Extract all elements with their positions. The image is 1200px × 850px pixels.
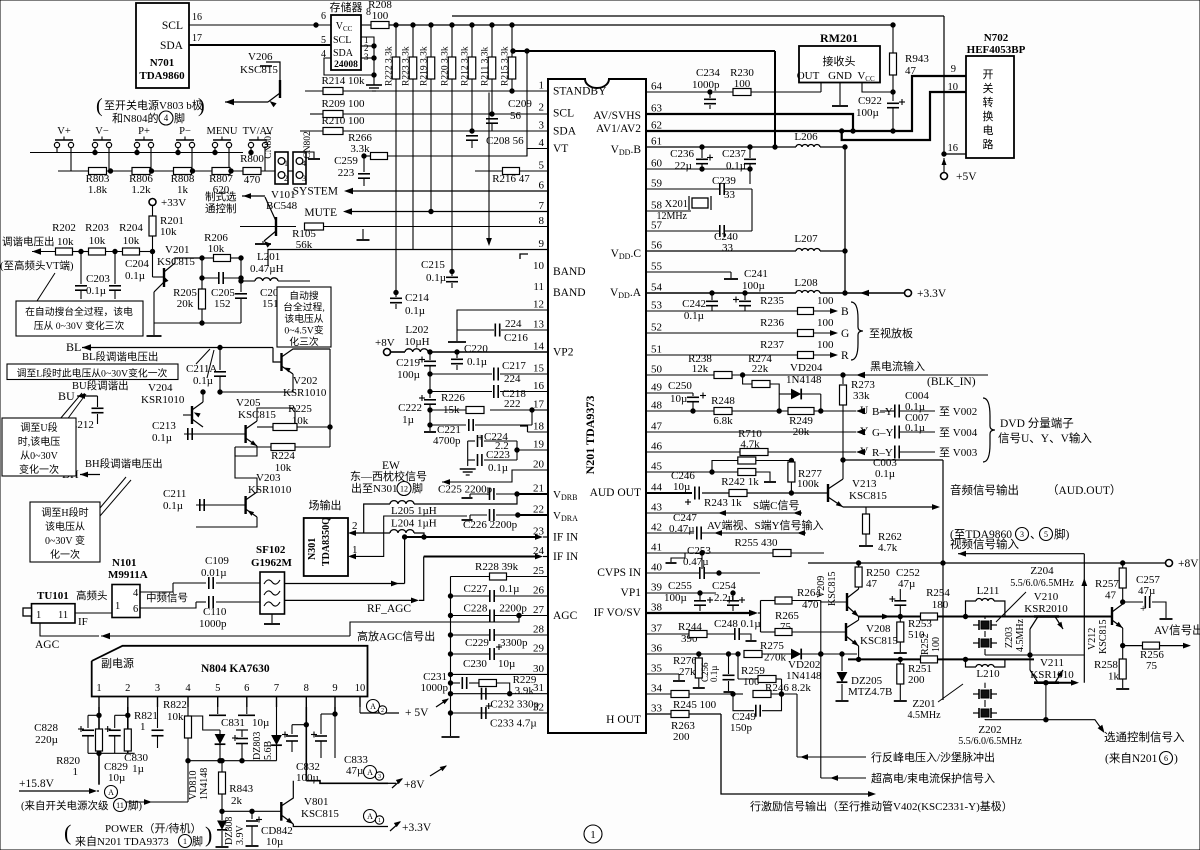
svg-text:AUD OUT: AUD OUT <box>590 487 641 499</box>
svg-text:1µ: 1µ <box>402 414 414 426</box>
svg-text:27k: 27k <box>679 666 696 678</box>
svg-text:V206: V206 <box>248 51 273 63</box>
svg-text:调谐电压出: 调谐电压出 <box>2 235 55 248</box>
svg-text:100: 100 <box>817 317 834 329</box>
svg-text:4700p: 4700p <box>433 435 461 447</box>
svg-text:4: 4 <box>185 683 191 694</box>
diode VD202 line from pin36 <box>646 653 738 655</box>
svg-text:+: + <box>1140 603 1146 615</box>
wire V101 emitter to ground <box>264 231 276 241</box>
svg-text:KSR1010: KSR1010 <box>141 394 185 406</box>
svg-text:CN801: CN801 <box>264 131 274 159</box>
svg-text:2: 2 <box>352 520 358 532</box>
svg-text:1: 1 <box>73 766 79 778</box>
svg-text:接收头: 接收头 <box>823 54 856 68</box>
resonator Z204 upper <box>984 617 986 620</box>
label audio out <box>866 506 937 508</box>
svg-text:5: 5 <box>321 35 326 46</box>
signal line1 SIF <box>859 616 921 618</box>
svg-text:KSR1010: KSR1010 <box>283 387 327 399</box>
pin18 stub bracket <box>528 431 549 433</box>
wire H drive output <box>721 714 873 794</box>
svg-text:24008: 24008 <box>334 60 358 70</box>
svg-text:R822: R822 <box>163 699 187 711</box>
resistor R807 <box>212 168 230 175</box>
wire bottom rail C828 <box>88 752 135 754</box>
svg-text:22k: 22k <box>752 363 769 375</box>
svg-text:P+: P+ <box>138 126 150 137</box>
svg-text:C232 330p: C232 330p <box>490 699 539 711</box>
svg-text:33: 33 <box>722 242 734 254</box>
svg-text:20: 20 <box>533 459 545 471</box>
terminal +8V <box>1166 560 1173 567</box>
svg-text:MENU: MENU <box>207 126 238 137</box>
wire 24008 pin4 loop <box>324 58 374 75</box>
wire 选通控制 from V211 <box>1045 683 1047 720</box>
capacitor C241 cap symbol <box>743 291 747 295</box>
svg-text:C216: C216 <box>504 332 528 344</box>
wire BU arrow <box>77 395 98 397</box>
column rail x450 <box>450 577 452 737</box>
svg-text:AGC: AGC <box>553 610 578 622</box>
svg-text:AGC: AGC <box>35 639 60 651</box>
svg-text:C922: C922 <box>858 95 882 107</box>
svg-text:C259: C259 <box>334 155 358 167</box>
circled A2 <box>367 700 380 713</box>
svg-text:16: 16 <box>192 12 202 23</box>
brace to video board <box>851 302 863 360</box>
svg-text:和N804的: 和N804的 <box>112 111 158 125</box>
svg-text:Z204: Z204 <box>1030 565 1054 577</box>
wire pin60 <box>646 168 750 170</box>
svg-text:Y: Y <box>860 426 869 438</box>
wire pin4 column R822 <box>187 707 189 716</box>
svg-text:KSC815: KSC815 <box>240 64 278 76</box>
svg-text:40: 40 <box>651 562 663 574</box>
svg-text:换: 换 <box>983 109 994 123</box>
svg-text:0.1µ: 0.1µ <box>193 375 213 387</box>
V213 collector rail to +8V vertical <box>843 459 943 461</box>
svg-text:该电压从: 该电压从 <box>284 312 323 325</box>
capacitor C209 56 <box>490 112 494 116</box>
rail B under N804 <box>188 760 277 762</box>
wire R264 to V209 base <box>821 601 847 603</box>
wire pin30 <box>451 673 549 675</box>
svg-text:V203: V203 <box>256 472 281 484</box>
svg-text:58: 58 <box>651 200 663 212</box>
svg-text:47: 47 <box>651 421 663 433</box>
svg-text:BU: BU <box>58 389 75 403</box>
svg-text:R248: R248 <box>711 395 735 407</box>
wire RM201 Vcc to R943/C922 node <box>862 83 893 93</box>
wire pin23 IF IN <box>405 536 540 538</box>
svg-text:2200p: 2200p <box>499 603 527 615</box>
svg-text:15: 15 <box>533 363 545 375</box>
svg-text:150p: 150p <box>730 722 753 734</box>
svg-text:3300p: 3300p <box>500 637 528 649</box>
svg-text:R800: R800 <box>240 153 264 165</box>
svg-text:脚): 脚) <box>128 799 142 812</box>
svg-text:1: 1 <box>183 837 187 846</box>
svg-text:2k: 2k <box>231 795 243 807</box>
svg-text:东—西枕校信号: 东—西枕校信号 <box>350 469 427 483</box>
svg-text:C229: C229 <box>465 637 489 649</box>
connector CN802 <box>293 152 306 184</box>
svg-text:62: 62 <box>651 120 662 132</box>
svg-text:S端C信号: S端C信号 <box>753 499 799 512</box>
wire V206 collector to bracket <box>266 62 280 82</box>
svg-text:38: 38 <box>651 602 663 614</box>
svg-text:37: 37 <box>651 623 663 635</box>
ground stub near CN802 <box>306 152 314 158</box>
column ground <box>442 736 460 738</box>
svg-text:R: R <box>841 350 849 362</box>
resistor R203 <box>89 248 106 255</box>
svg-text:3.9k: 3.9k <box>515 685 535 697</box>
callout box 调至L段 <box>7 364 178 380</box>
svg-text:P−: P− <box>179 126 191 137</box>
svg-text:V211: V211 <box>1040 657 1064 669</box>
svg-text:+8V: +8V <box>404 779 425 791</box>
svg-text:通控制: 通控制 <box>205 202 237 215</box>
resistor R202 <box>56 248 73 255</box>
beam current protection vertical <box>820 601 822 779</box>
svg-text:54: 54 <box>651 282 663 294</box>
svg-text:U: U <box>860 405 869 417</box>
svg-text:压从 0~30V 变化三次: 压从 0~30V 变化三次 <box>34 319 125 332</box>
svg-text:R237: R237 <box>760 339 784 351</box>
wire top rail into N702 pin16 <box>944 16 966 154</box>
svg-text:R202: R202 <box>52 222 76 234</box>
resonator Z202 lower <box>984 700 986 707</box>
svg-text:4.7k: 4.7k <box>878 542 898 554</box>
svg-text:7: 7 <box>539 200 545 212</box>
circled A3 <box>364 766 377 779</box>
svg-text:IF IN: IF IN <box>553 532 579 544</box>
svg-text:R212 3.3k: R212 3.3k <box>461 46 471 86</box>
svg-text:3: 3 <box>378 774 381 780</box>
wire BH arrow <box>80 474 100 476</box>
SF102 ground <box>271 614 273 623</box>
resistor R204 <box>123 248 140 255</box>
svg-text:7: 7 <box>274 683 279 694</box>
svg-text:R258: R258 <box>1094 659 1118 671</box>
svg-text:变化一次: 变化一次 <box>19 463 59 476</box>
svg-text:R224: R224 <box>271 450 295 462</box>
svg-text:8: 8 <box>304 683 309 694</box>
svg-text:POWER（开/待机）: POWER（开/待机） <box>105 821 202 835</box>
svg-text:152: 152 <box>214 298 231 310</box>
svg-text:R242 1k: R242 1k <box>721 476 759 488</box>
svg-text:L211: L211 <box>977 585 1000 597</box>
svg-text:44: 44 <box>651 482 663 494</box>
wire pin53 R235 to B <box>646 310 798 312</box>
svg-text:36: 36 <box>651 643 663 655</box>
svg-text:BL段调谐电压出: BL段调谐电压出 <box>82 350 158 363</box>
svg-text:0~4.5V变: 0~4.5V变 <box>284 324 324 337</box>
svg-text:10µH: 10µH <box>404 336 429 348</box>
wire pin24 IF IN from SF102 <box>424 556 540 558</box>
svg-text:C255: C255 <box>668 580 692 592</box>
resistor R806 <box>132 168 150 175</box>
svg-text:1µ: 1µ <box>132 763 144 775</box>
svg-text:): ) <box>205 822 212 847</box>
svg-text:33k: 33k <box>853 390 870 402</box>
svg-text:63: 63 <box>651 103 663 115</box>
svg-text:VD204: VD204 <box>790 362 823 374</box>
svg-text:VP1: VP1 <box>621 587 642 599</box>
svg-text:R214 10k: R214 10k <box>321 75 365 87</box>
svg-text:高频头: 高频头 <box>76 589 108 602</box>
svg-text:151: 151 <box>262 298 279 310</box>
DVD component U B-Y line <box>856 408 865 414</box>
svg-text:L206: L206 <box>794 131 818 143</box>
svg-text:C236: C236 <box>670 148 694 160</box>
svg-text:48: 48 <box>651 400 663 412</box>
svg-text:33: 33 <box>724 189 736 201</box>
svg-text:B: B <box>841 306 849 318</box>
svg-text:75: 75 <box>1146 660 1158 672</box>
svg-text:KSC815: KSC815 <box>1098 620 1109 654</box>
wire SCL from N701 pin16 <box>189 24 331 26</box>
svg-text:10k: 10k <box>123 235 140 247</box>
svg-text:至视放板: 至视放板 <box>869 326 913 340</box>
svg-text:12MHz: 12MHz <box>656 211 687 222</box>
resistor R212 3.3k <box>471 25 473 58</box>
svg-text:3: 3 <box>155 683 160 694</box>
svg-text:X201: X201 <box>665 199 688 210</box>
svg-text:VT: VT <box>553 143 568 155</box>
svg-text:L207: L207 <box>794 233 818 245</box>
vertical line with down arrow to pin9 <box>488 93 490 243</box>
svg-text:脚: 脚 <box>412 481 423 495</box>
svg-text:R245 100: R245 100 <box>673 699 717 711</box>
wire pin5 stub bar <box>217 707 219 714</box>
svg-text:SCL: SCL <box>553 108 574 120</box>
svg-text:R246 8.2k: R246 8.2k <box>765 682 811 694</box>
svg-text:至 V004: 至 V004 <box>939 427 978 439</box>
svg-text:C213: C213 <box>152 420 176 432</box>
svg-text:19: 19 <box>533 439 545 451</box>
wire N101 pin6 to C110 <box>140 602 196 608</box>
svg-text:V204: V204 <box>148 382 173 394</box>
svg-text:25: 25 <box>533 565 545 577</box>
svg-text:R243 1k: R243 1k <box>704 497 742 509</box>
callout box 在自动搜台全过程 <box>16 301 143 336</box>
svg-text:R203: R203 <box>85 222 109 234</box>
svg-text:C223: C223 <box>486 449 510 461</box>
svg-text:R225: R225 <box>288 403 312 415</box>
wire RM201 GND to ground <box>839 83 841 106</box>
svg-text:C242: C242 <box>682 298 706 310</box>
DVD component V R-Y line <box>646 451 856 453</box>
svg-text:10µ: 10µ <box>252 717 269 729</box>
wire pin19 stub <box>517 449 548 451</box>
svg-text:关: 关 <box>983 81 994 95</box>
wire V208 collector up to V209 emitter line <box>858 617 860 621</box>
svg-text:N804 KA7630: N804 KA7630 <box>201 663 270 675</box>
video line vertical x945 <box>942 460 944 700</box>
svg-text:10: 10 <box>533 260 545 272</box>
wire V201 emitter <box>154 282 164 292</box>
svg-text:2: 2 <box>539 102 545 114</box>
svg-text:V201: V201 <box>165 244 189 256</box>
svg-text:+15.8V: +15.8V <box>19 778 55 790</box>
svg-text:+8V: +8V <box>1178 558 1199 570</box>
svg-text:0.47µ: 0.47µ <box>683 556 709 568</box>
svg-text:Z202: Z202 <box>978 724 1001 736</box>
svg-text:10µ: 10µ <box>670 393 687 405</box>
svg-text:+3.3V: +3.3V <box>917 288 947 300</box>
svg-text:16: 16 <box>948 143 959 154</box>
svg-text:10µ: 10µ <box>498 658 515 670</box>
svg-text:0.1µ: 0.1µ <box>163 500 183 512</box>
svg-text:MUTE: MUTE <box>304 207 337 219</box>
svg-text:270k: 270k <box>764 652 787 664</box>
svg-text:至开关电源V803 b极: 至开关电源V803 b极 <box>104 98 203 112</box>
svg-text:(: ( <box>96 95 103 117</box>
svg-text:6: 6 <box>321 11 326 22</box>
svg-text:C227: C227 <box>464 583 488 595</box>
svg-text:10k: 10k <box>160 226 177 238</box>
svg-text:SDA: SDA <box>160 40 184 52</box>
wire key matrix bus <box>30 152 243 154</box>
wire V201 collector <box>164 258 202 272</box>
svg-text:A: A <box>370 702 376 711</box>
svg-text:KSC815: KSC815 <box>849 490 887 502</box>
svg-text:33: 33 <box>651 703 663 715</box>
svg-text:至 V003: 至 V003 <box>939 447 978 459</box>
svg-text:56: 56 <box>651 240 663 252</box>
svg-text:0.1µ: 0.1µ <box>488 462 508 474</box>
svg-text:21: 21 <box>533 483 544 495</box>
svg-text:MTZ4.7B: MTZ4.7B <box>848 686 892 698</box>
svg-text:BU段调谐出: BU段调谐出 <box>72 379 129 392</box>
svg-text:DZ803: DZ803 <box>252 732 263 760</box>
svg-text:6.8k: 6.8k <box>713 415 733 427</box>
svg-text:1: 1 <box>284 159 288 168</box>
svg-text:HEF4053BP: HEF4053BP <box>967 44 1026 56</box>
svg-text:V202: V202 <box>293 375 317 387</box>
svg-text:OUT: OUT <box>797 70 820 82</box>
svg-text:开: 开 <box>983 69 994 81</box>
resistor R220 3.3k <box>451 25 453 58</box>
svg-text:化三次: 化三次 <box>289 335 319 348</box>
pointer triangle VT <box>37 273 60 301</box>
svg-text:180: 180 <box>932 599 949 611</box>
svg-text:视频信号输入: 视频信号输入 <box>950 537 1019 551</box>
wire pin40 CVPS <box>646 572 699 574</box>
svg-text:47µ: 47µ <box>1138 585 1155 597</box>
svg-text:C203: C203 <box>86 273 110 285</box>
svg-text:路: 路 <box>983 138 994 151</box>
svg-text:V213: V213 <box>852 478 877 490</box>
svg-text:SCL: SCL <box>162 20 183 32</box>
connector CN801 <box>275 152 288 184</box>
svg-text:IF: IF <box>78 616 88 628</box>
svg-text:R211 3.3k: R211 3.3k <box>481 47 491 86</box>
svg-text:L204 1µH: L204 1µH <box>391 518 437 530</box>
svg-text:行激励信号输出（至行推动管V402(KSC2331-Y)基极: 行激励信号输出（至行推动管V402(KSC2331-Y)基极） <box>750 799 1013 813</box>
svg-text:100: 100 <box>931 637 942 652</box>
svg-text:BL: BL <box>66 340 81 354</box>
bracket above pin10 <box>520 254 528 259</box>
svg-text:9: 9 <box>332 683 337 694</box>
svg-text:V212: V212 <box>1087 628 1098 650</box>
svg-text:AV1/AV2: AV1/AV2 <box>596 123 641 135</box>
wire R246 right to sandcastle line <box>796 694 798 757</box>
svg-text:KSC815: KSC815 <box>827 572 838 606</box>
wire TU101 AGC loop <box>40 623 99 636</box>
wire branch to N702 pin10 <box>842 92 966 140</box>
svg-text:52: 52 <box>651 322 662 334</box>
svg-text:224: 224 <box>505 318 522 330</box>
label 黑电流输入 BLK_IN <box>856 372 865 378</box>
svg-text:100µ: 100µ <box>397 369 420 381</box>
svg-text:DVD 分量端子: DVD 分量端子 <box>1000 417 1074 430</box>
terminal +33V <box>149 199 156 206</box>
svg-text:100k: 100k <box>797 478 820 490</box>
svg-text:R215 3.3k: R215 3.3k <box>501 46 511 86</box>
svg-text:0.1µ: 0.1µ <box>467 356 487 368</box>
wire bus2 to V101 base <box>288 170 293 172</box>
svg-text:C248 0.1µ: C248 0.1µ <box>714 618 761 630</box>
terminal +5V <box>941 173 948 180</box>
transistor V212 <box>1111 607 1113 625</box>
svg-text:该电压从: 该电压从 <box>45 520 85 533</box>
ground under 24008 <box>366 84 382 86</box>
svg-text:SCL: SCL <box>333 35 351 46</box>
svg-text:10k: 10k <box>57 236 74 248</box>
svg-text:M9911A: M9911A <box>108 569 148 581</box>
svg-text:100µ: 100µ <box>742 280 765 292</box>
bracket gnd after R242 lower <box>756 472 770 481</box>
svg-text:43: 43 <box>651 502 663 514</box>
IC N201 TDA9373 body <box>548 79 646 733</box>
wire V203 collector up to R224 line <box>235 447 257 492</box>
svg-text:3: 3 <box>364 52 369 62</box>
svg-text:高放AGC信号出: 高放AGC信号出 <box>357 629 435 643</box>
svg-text:9: 9 <box>539 238 545 250</box>
resistor R223 3.3k <box>412 25 414 58</box>
svg-text:TU101: TU101 <box>37 590 69 602</box>
svg-text:N702: N702 <box>984 32 1009 44</box>
svg-text:200: 200 <box>908 674 925 686</box>
svg-text:5: 5 <box>215 683 220 694</box>
wire TU101 IF out <box>75 612 112 614</box>
svg-text:1000p: 1000p <box>692 79 720 91</box>
svg-text:55: 55 <box>651 261 663 273</box>
SF102 top output to pin23 <box>285 583 405 585</box>
label +8V with arrow <box>388 782 396 784</box>
svg-text:17: 17 <box>192 33 202 44</box>
svg-text:CVPS IN: CVPS IN <box>597 567 641 579</box>
callout box 调至H段时 <box>30 502 100 562</box>
svg-text:34: 34 <box>651 683 663 695</box>
wire pin6 stub bar <box>246 707 248 714</box>
svg-text:56: 56 <box>510 110 522 122</box>
line1 to V212 base <box>1059 616 1112 618</box>
svg-text:1: 1 <box>140 721 146 733</box>
bracket gnd pin41 <box>671 553 685 562</box>
svg-text:场输出: 场输出 <box>309 498 342 512</box>
svg-text:223: 223 <box>338 167 355 179</box>
svg-text:5.6B: 5.6B <box>263 741 274 761</box>
line 超高电/束电流保护信号入 <box>821 777 866 779</box>
wire 24008 pins 1-2-3 tied to ground <box>361 37 374 85</box>
svg-text:N301: N301 <box>307 538 318 560</box>
line sandcastle 行反峰电压入/沙堡脉冲出 <box>797 756 866 758</box>
